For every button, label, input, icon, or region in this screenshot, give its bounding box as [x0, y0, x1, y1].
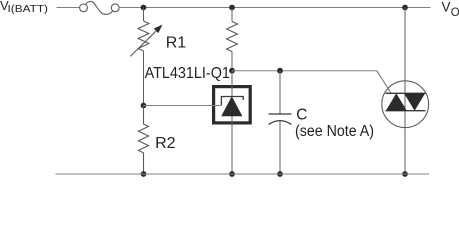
- junction dot bottom rail / capacitor: [277, 171, 283, 177]
- fuse F1 (circuit breaker): [80, 1, 120, 14]
- wire top rail left segment: [57, 7, 80, 9]
- node VI(BATT) label: [0, 0, 48, 15]
- resistor (upper bias, unlabeled): [227, 22, 238, 52]
- wire bottom rail: [56, 173, 430, 175]
- wire capacitor branch lower: [279, 121, 281, 174]
- svg-text:ATL431LI-Q1: ATL431LI-Q1: [145, 65, 230, 82]
- svg-text:I(BATT): I(BATT): [8, 3, 49, 15]
- wire top rail main segment: [119, 7, 430, 9]
- node VO label: [442, 0, 459, 19]
- svg-text:O: O: [451, 7, 459, 19]
- junction dot bottom rail / U1 anode: [229, 171, 235, 177]
- wire middle branch upper: [231, 8, 233, 22]
- junction dot capacitor tap: [277, 68, 283, 74]
- shunt regulator U1 ATL431LI-Q1: [214, 71, 251, 174]
- junction dot top rail / R1: [141, 5, 147, 11]
- junction dot bottom rail / R2: [141, 171, 147, 177]
- wire cathode node horizontal: [232, 70, 377, 72]
- junction dot bottom rail / triac: [402, 171, 408, 177]
- wire reference from divider to U1: [144, 105, 222, 107]
- svg-text:(see Note A): (see Note A): [295, 123, 374, 140]
- triac Q (crowbar): [382, 81, 429, 128]
- capacitor C: [269, 114, 292, 125]
- svg-text:C: C: [296, 107, 307, 124]
- junction dot top rail / triac branch: [402, 5, 408, 11]
- wire gate diagonal: [377, 71, 392, 94]
- wire left branch upper: [143, 8, 145, 22]
- wire capacitor branch upper: [279, 71, 281, 114]
- resistor R2: [138, 106, 148, 175]
- node A (R1/R2 divider) junction dot: [141, 103, 147, 109]
- svg-text:V: V: [442, 0, 451, 15]
- resistor R1 (variable): [130, 21, 162, 56]
- wire left branch middle: [143, 51, 145, 106]
- node cathode junction dot: [229, 68, 235, 74]
- junction dot top rail / middle resistor: [229, 5, 235, 11]
- svg-text:R1: R1: [166, 35, 187, 52]
- wire middle branch to cathode node: [231, 52, 233, 72]
- svg-text:R2: R2: [155, 135, 176, 152]
- wire right branch vertical: [404, 8, 406, 175]
